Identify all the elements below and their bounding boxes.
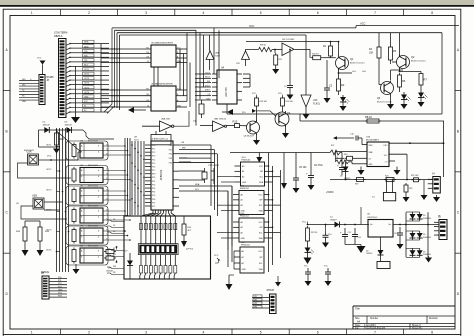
svg-text:RX1: RX1: [84, 65, 88, 67]
svg-text:D:\work\gkb-904.ddb: D:\work\gkb-904.ddb: [364, 327, 386, 330]
svg-text:2: 2: [88, 11, 90, 15]
svg-text:Date:: Date:: [355, 324, 361, 327]
svg-text:SWC: SWC: [369, 145, 374, 147]
svg-text:VCC: VCC: [278, 93, 283, 95]
svg-text:1N4148: 1N4148: [65, 125, 73, 127]
svg-text:A1: A1: [242, 170, 244, 173]
svg-text:7407: 7407: [215, 56, 221, 58]
svg-text:AT89C52: AT89C52: [159, 169, 163, 180]
svg-text:R20: R20: [385, 176, 388, 178]
svg-text:P17: P17: [152, 170, 155, 172]
svg-text:OUT1: OUT1: [84, 69, 89, 71]
svg-text:U9 TLC2652: U9 TLC2652: [282, 39, 295, 41]
svg-text:P33: P33: [152, 188, 155, 190]
svg-text:RX0: RX0: [84, 55, 88, 57]
svg-text:P31: P31: [152, 181, 155, 183]
svg-text:GND: GND: [369, 164, 374, 166]
svg-text:GND: GND: [58, 289, 63, 291]
svg-text:U8A: U8A: [215, 52, 220, 55]
svg-text:TX0: TX0: [84, 51, 87, 53]
svg-text:Q5 BC547: Q5 BC547: [244, 136, 255, 138]
svg-text:Size: Size: [355, 318, 360, 320]
svg-text:VCC: VCC: [214, 255, 219, 257]
svg-text:485+: 485+: [22, 79, 26, 81]
svg-text:OUT6: OUT6: [46, 250, 52, 252]
svg-text:OUT3: OUT3: [84, 78, 89, 80]
svg-text:R13 10K: R13 10K: [260, 101, 268, 103]
svg-text:R14 10K: R14 10K: [286, 101, 294, 103]
svg-text:SCL: SCL: [259, 263, 263, 265]
svg-text:MOC3041: MOC3041: [88, 186, 99, 188]
svg-text:1N4148: 1N4148: [43, 125, 51, 127]
svg-text:R19: R19: [355, 184, 358, 186]
svg-text:C13: C13: [394, 233, 397, 235]
svg-text:B: B: [457, 129, 459, 133]
svg-text:DRC: DRC: [384, 145, 389, 147]
svg-text:VCC: VCC: [252, 93, 257, 95]
svg-text:SCL: SCL: [259, 232, 263, 234]
svg-text:P14: P14: [152, 159, 155, 161]
svg-text:GND: GND: [177, 61, 182, 63]
svg-text:FM24C64: FM24C64: [241, 245, 251, 247]
svg-text:L2: L2: [336, 157, 338, 159]
svg-text:DRDY: DRDY: [205, 90, 211, 92]
svg-text:VCC: VCC: [249, 25, 254, 28]
svg-text:Out: Out: [388, 223, 391, 226]
svg-text:Vin: Vin: [370, 224, 373, 226]
svg-text:VCC: VCC: [259, 194, 264, 196]
svg-text:6: 6: [317, 331, 319, 335]
svg-text:3: 3: [145, 11, 147, 15]
svg-text:A0: A0: [241, 193, 243, 196]
svg-text:U3B: U3B: [32, 195, 37, 198]
svg-text:GND: GND: [242, 182, 247, 184]
svg-text:K2: K2: [84, 110, 86, 112]
svg-text:OUT6: OUT6: [84, 92, 89, 94]
svg-text:T2: T2: [106, 149, 108, 151]
svg-text:T2: T2: [106, 234, 108, 236]
svg-text:3: 3: [145, 331, 147, 335]
svg-text:WE: WE: [182, 147, 186, 149]
svg-text:P30: P30: [152, 177, 155, 179]
svg-text:MOC3041: MOC3041: [88, 226, 99, 228]
svg-text:P37: P37: [152, 202, 155, 204]
svg-text:VCC: VCC: [259, 251, 264, 253]
svg-text:Drawn By:: Drawn By:: [412, 327, 423, 330]
svg-text:U8B 74HC14: U8B 74HC14: [214, 119, 227, 121]
svg-text:4-Apr-2004: 4-Apr-2004: [364, 324, 376, 327]
svg-text:P00: P00: [169, 145, 172, 147]
svg-text:GND: GND: [84, 96, 89, 98]
svg-text:LM2576S-5: LM2576S-5: [367, 217, 378, 219]
svg-text:A0: A0: [242, 165, 244, 168]
svg-text:8: 8: [431, 11, 433, 15]
svg-text:A0: A0: [242, 250, 244, 253]
svg-text:BC557 inverter: BC557 inverter: [350, 62, 365, 65]
svg-text:Revision: Revision: [429, 318, 439, 320]
svg-text:C6 470u: C6 470u: [314, 165, 323, 167]
svg-text:T1: T1: [106, 229, 108, 231]
svg-text:VCC: VCC: [84, 101, 89, 103]
svg-text:VCC: VCC: [47, 156, 52, 158]
svg-text:P04: P04: [169, 162, 172, 164]
svg-text:10K: 10K: [369, 52, 374, 55]
svg-text:R24: R24: [188, 227, 191, 229]
svg-text:AD7705: AD7705: [224, 87, 228, 97]
svg-text:A1: A1: [242, 256, 244, 259]
svg-text:4K7: 4K7: [188, 230, 191, 232]
svg-text:1N4148: 1N4148: [106, 271, 113, 273]
svg-text:JP4: JP4: [254, 306, 257, 308]
svg-text:DEBUG: DEBUG: [41, 272, 49, 274]
svg-text:R15: R15: [233, 119, 238, 123]
svg-text:P10: P10: [152, 145, 155, 147]
svg-text:A1: A1: [241, 199, 243, 202]
svg-text:OUT2: OUT2: [84, 74, 89, 76]
svg-text:P6KE6V8: P6KE6V8: [423, 237, 431, 239]
svg-text:JP2: JP2: [254, 299, 257, 301]
svg-text:+: +: [337, 164, 339, 168]
svg-text:R16: R16: [344, 154, 347, 156]
svg-text:A0: A0: [241, 221, 243, 224]
svg-text:R12: R12: [59, 137, 64, 141]
svg-text:GND: GND: [242, 269, 247, 271]
svg-text:OUT5: OUT5: [84, 87, 89, 89]
svg-text:P36: P36: [152, 199, 155, 201]
svg-text:A1: A1: [241, 226, 243, 229]
svg-text:D5: D5: [113, 225, 115, 227]
svg-text:PLD: PLD: [242, 112, 246, 114]
svg-text:(OPTO): (OPTO): [186, 249, 193, 251]
svg-text:485-: 485-: [22, 84, 26, 86]
svg-text:P6KE6V8: P6KE6V8: [423, 254, 431, 256]
svg-text:R6: R6: [402, 79, 406, 83]
svg-text:7: 7: [374, 331, 376, 335]
svg-text:P34: P34: [152, 192, 155, 194]
svg-text:8: 8: [431, 331, 433, 335]
svg-text:U10 MAX1487E(CERDIP): U10 MAX1487E(CERDIP): [151, 42, 173, 45]
svg-text:R21 10K: R21 10K: [411, 175, 419, 177]
svg-text:R7: R7: [424, 77, 428, 81]
svg-text:1N4007: 1N4007: [330, 219, 337, 221]
svg-text:T2: T2: [106, 214, 108, 216]
svg-text:P32: P32: [152, 184, 155, 186]
svg-text:Sheet of: Sheet of: [412, 324, 421, 327]
svg-text:BC557 inverter: BC557 inverter: [411, 60, 426, 63]
svg-text:FM24C64: FM24C64: [242, 160, 252, 162]
svg-text:JP3: JP3: [254, 303, 257, 305]
svg-text:File:: File:: [355, 328, 360, 330]
svg-text:K1: K1: [84, 106, 86, 108]
svg-text:U1 AT89C52(PLCC): U1 AT89C52(PLCC): [151, 138, 168, 141]
svg-text:D5: D5: [423, 251, 425, 253]
svg-text:R10 1K: R10 1K: [312, 54, 319, 56]
svg-text:FM24C64: FM24C64: [240, 216, 250, 218]
svg-text:OUT1: OUT1: [46, 145, 52, 147]
svg-text:TX1: TX1: [84, 60, 87, 62]
svg-text:T1: T1: [106, 189, 108, 191]
svg-text:Number: Number: [370, 317, 378, 320]
svg-text:7: 7: [374, 11, 376, 15]
svg-text:TL431: TL431: [313, 103, 320, 106]
svg-text:XT2: XT2: [152, 206, 155, 208]
svg-text:P12: P12: [152, 152, 155, 154]
svg-text:D2: D2: [366, 251, 368, 253]
svg-text:MOC3041: MOC3041: [88, 246, 99, 248]
svg-text:A2: A2: [242, 175, 244, 178]
svg-text:R2: R2: [341, 83, 345, 87]
svg-text:P16: P16: [152, 166, 155, 168]
svg-text:U8A 7407: U8A 7407: [161, 118, 171, 121]
svg-text:+: +: [306, 172, 308, 176]
svg-text:1: 1: [31, 11, 33, 15]
svg-text:VCC: VCC: [360, 22, 366, 26]
svg-text:T2: T2: [106, 173, 108, 175]
svg-text:Title: Title: [355, 307, 360, 311]
svg-text:1N5819: 1N5819: [366, 253, 372, 255]
svg-text:Y1 11.0592: Y1 11.0592: [208, 165, 220, 167]
svg-text:C2: C2: [284, 86, 286, 88]
svg-text:5: 5: [260, 11, 262, 15]
svg-text:T1: T1: [106, 169, 108, 171]
svg-text:485A: 485A: [84, 41, 89, 44]
svg-text:RW: RW: [113, 266, 116, 268]
svg-text:STRAP: STRAP: [267, 289, 275, 292]
svg-text:485B: 485B: [84, 46, 89, 48]
svg-text:R9 1K: R9 1K: [260, 45, 267, 47]
svg-text:OE: OE: [181, 142, 185, 144]
svg-text:SDA: SDA: [195, 183, 200, 186]
svg-text:VCC: VCC: [259, 166, 264, 168]
svg-text:MC34063AP1: MC34063AP1: [366, 139, 380, 142]
svg-text:C11: C11: [348, 232, 351, 234]
svg-text:P13: P13: [152, 156, 155, 158]
svg-text:A2: A2: [242, 262, 244, 265]
svg-text:OUT4: OUT4: [84, 83, 89, 85]
svg-text:DB25-S: DB25-S: [54, 35, 63, 38]
svg-text:A2: A2: [241, 231, 243, 234]
svg-text:C5 104: C5 104: [299, 167, 307, 169]
svg-text:B: B: [6, 129, 8, 133]
svg-text:P35: P35: [152, 195, 155, 197]
svg-text:R22: R22: [409, 188, 412, 190]
svg-text:P15: P15: [152, 163, 155, 165]
svg-text:MOC3041: MOC3041: [88, 165, 99, 167]
svg-text:C14: C14: [328, 234, 331, 236]
svg-text:MOC3041: MOC3041: [88, 206, 99, 208]
svg-text:GND: GND: [22, 101, 27, 103]
svg-text:+: +: [340, 231, 342, 235]
svg-text:SCL: SCL: [259, 176, 263, 178]
svg-text:MOC3041: MOC3041: [24, 150, 35, 152]
svg-text:OUT2: OUT2: [46, 169, 52, 171]
svg-text:GND: GND: [177, 106, 182, 108]
svg-text:P6KE6V8: P6KE6V8: [423, 218, 431, 220]
svg-text:VCC: VCC: [58, 293, 63, 295]
svg-text:1: 1: [31, 331, 33, 335]
svg-text:6: 6: [317, 11, 319, 15]
svg-text:+5VDC: +5VDC: [326, 191, 334, 194]
svg-text:+5V: +5V: [124, 251, 128, 253]
svg-text:RS485: RS485: [47, 77, 55, 79]
svg-text:JP1: JP1: [254, 296, 257, 298]
svg-text:OUT3: OUT3: [46, 190, 52, 192]
svg-text:T1: T1: [106, 144, 108, 146]
svg-text:5: 5: [260, 331, 262, 335]
svg-text:SCL: SCL: [259, 205, 263, 207]
svg-text:C12: C12: [358, 237, 361, 239]
svg-text:2: 2: [88, 331, 90, 335]
svg-text:VCC: VCC: [259, 222, 264, 224]
svg-text:T2: T2: [106, 194, 108, 196]
svg-text:R8 1K: R8 1K: [365, 115, 372, 119]
svg-text:FM24C64: FM24C64: [240, 188, 250, 190]
svg-text:D5: D5: [423, 215, 425, 217]
svg-text:P03: P03: [169, 158, 172, 160]
svg-text:BC547 inverter: BC547 inverter: [377, 101, 392, 104]
svg-text:4: 4: [203, 11, 205, 15]
svg-text:P01: P01: [169, 149, 172, 151]
svg-text:MOC3041: MOC3041: [88, 141, 99, 143]
svg-text:R23 1K: R23 1K: [311, 232, 318, 234]
svg-text:SCLK: SCLK: [205, 72, 210, 74]
svg-text:T1: T1: [106, 209, 108, 211]
svg-text:4: 4: [203, 331, 205, 335]
svg-text:VCC: VCC: [302, 221, 307, 223]
svg-text:VCC: VCC: [37, 58, 42, 60]
svg-text:P02: P02: [169, 154, 172, 156]
svg-text:D5: D5: [423, 234, 425, 236]
svg-text:D8: D8: [340, 176, 342, 178]
svg-text:P11: P11: [152, 148, 155, 150]
svg-text:A2: A2: [241, 204, 243, 207]
svg-text:GND: GND: [241, 238, 246, 240]
svg-text:MCLK: MCLK: [205, 77, 211, 79]
